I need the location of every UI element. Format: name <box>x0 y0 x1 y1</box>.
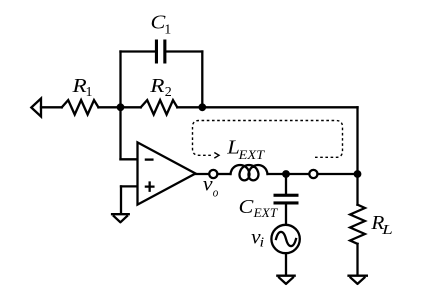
svg-text:R: R <box>149 74 164 96</box>
svg-text:1: 1 <box>164 23 171 38</box>
op-amp U1 <box>138 142 196 204</box>
wire R1 to node A <box>98 106 120 108</box>
ground (source) <box>276 276 296 284</box>
node vo (open terminal) <box>209 170 217 178</box>
inductor LEXT <box>231 165 268 180</box>
svg-text:1: 1 <box>86 85 93 100</box>
node D junction dot <box>354 170 362 178</box>
resistor R1 <box>62 100 99 114</box>
wire node D to RL <box>356 174 358 205</box>
capacitor CEXT plates <box>274 194 299 205</box>
svg-text:2: 2 <box>165 85 172 100</box>
wire C1 left riser <box>119 52 121 108</box>
wire source to ground <box>285 253 287 275</box>
label R2 <box>149 74 172 100</box>
wire CEXT to source <box>285 205 287 225</box>
svg-text:v: v <box>203 173 213 196</box>
resistor RL <box>350 205 365 244</box>
wire node A down to inverting input <box>119 107 121 159</box>
svg-text:L: L <box>381 221 393 237</box>
wire R2 to node B <box>177 106 202 108</box>
wire right vertical drop <box>356 107 358 174</box>
capacitor C1 plates <box>155 40 167 64</box>
wire C1 left lead <box>121 50 155 52</box>
label vo <box>203 173 218 200</box>
svg-text:i: i <box>260 235 265 250</box>
wire terminal to node D <box>318 173 358 175</box>
wire op-amp output <box>196 173 210 175</box>
ground (op-amp +) <box>111 214 130 222</box>
label R1 <box>71 74 92 100</box>
svg-text:R: R <box>71 74 86 96</box>
wire C1 right riser <box>201 52 203 108</box>
label C1 <box>151 11 172 38</box>
wire node C to CEXT <box>285 174 287 194</box>
node open terminal right <box>309 170 317 178</box>
svg-text:EXT: EXT <box>237 147 264 162</box>
dashed current loop <box>193 121 343 158</box>
dashed loop arrowhead <box>214 153 219 159</box>
node B junction dot <box>198 103 206 111</box>
svg-text:o: o <box>213 184 219 199</box>
wire node B to right branch (top) <box>202 106 357 108</box>
label RL <box>370 212 392 237</box>
wire noninverting input <box>121 185 138 187</box>
source vi circle <box>271 225 299 253</box>
op-amp plus sign <box>146 183 154 191</box>
wire down to opamp ground <box>120 186 122 213</box>
label LEXT <box>226 136 265 162</box>
input terminal arrow (left) <box>31 99 41 117</box>
wire vo to LEXT <box>218 173 231 175</box>
wire into inverting input <box>121 158 138 160</box>
wire node A to R2 <box>121 106 141 108</box>
resistor R2 <box>141 100 178 114</box>
ground (RL) <box>347 276 368 284</box>
label CEXT <box>239 195 278 220</box>
node C junction dot <box>282 170 290 178</box>
label vi <box>251 227 264 250</box>
source vi sine <box>276 232 296 246</box>
wire LEXT to node C <box>268 173 310 175</box>
wire RL to ground <box>356 244 358 275</box>
node A junction dot <box>117 103 125 111</box>
svg-text:C: C <box>239 195 255 218</box>
svg-text:EXT: EXT <box>253 205 278 220</box>
wire arrow to R1 <box>41 106 62 108</box>
op-amp minus sign <box>146 158 153 160</box>
wire C1 right lead <box>166 50 202 52</box>
